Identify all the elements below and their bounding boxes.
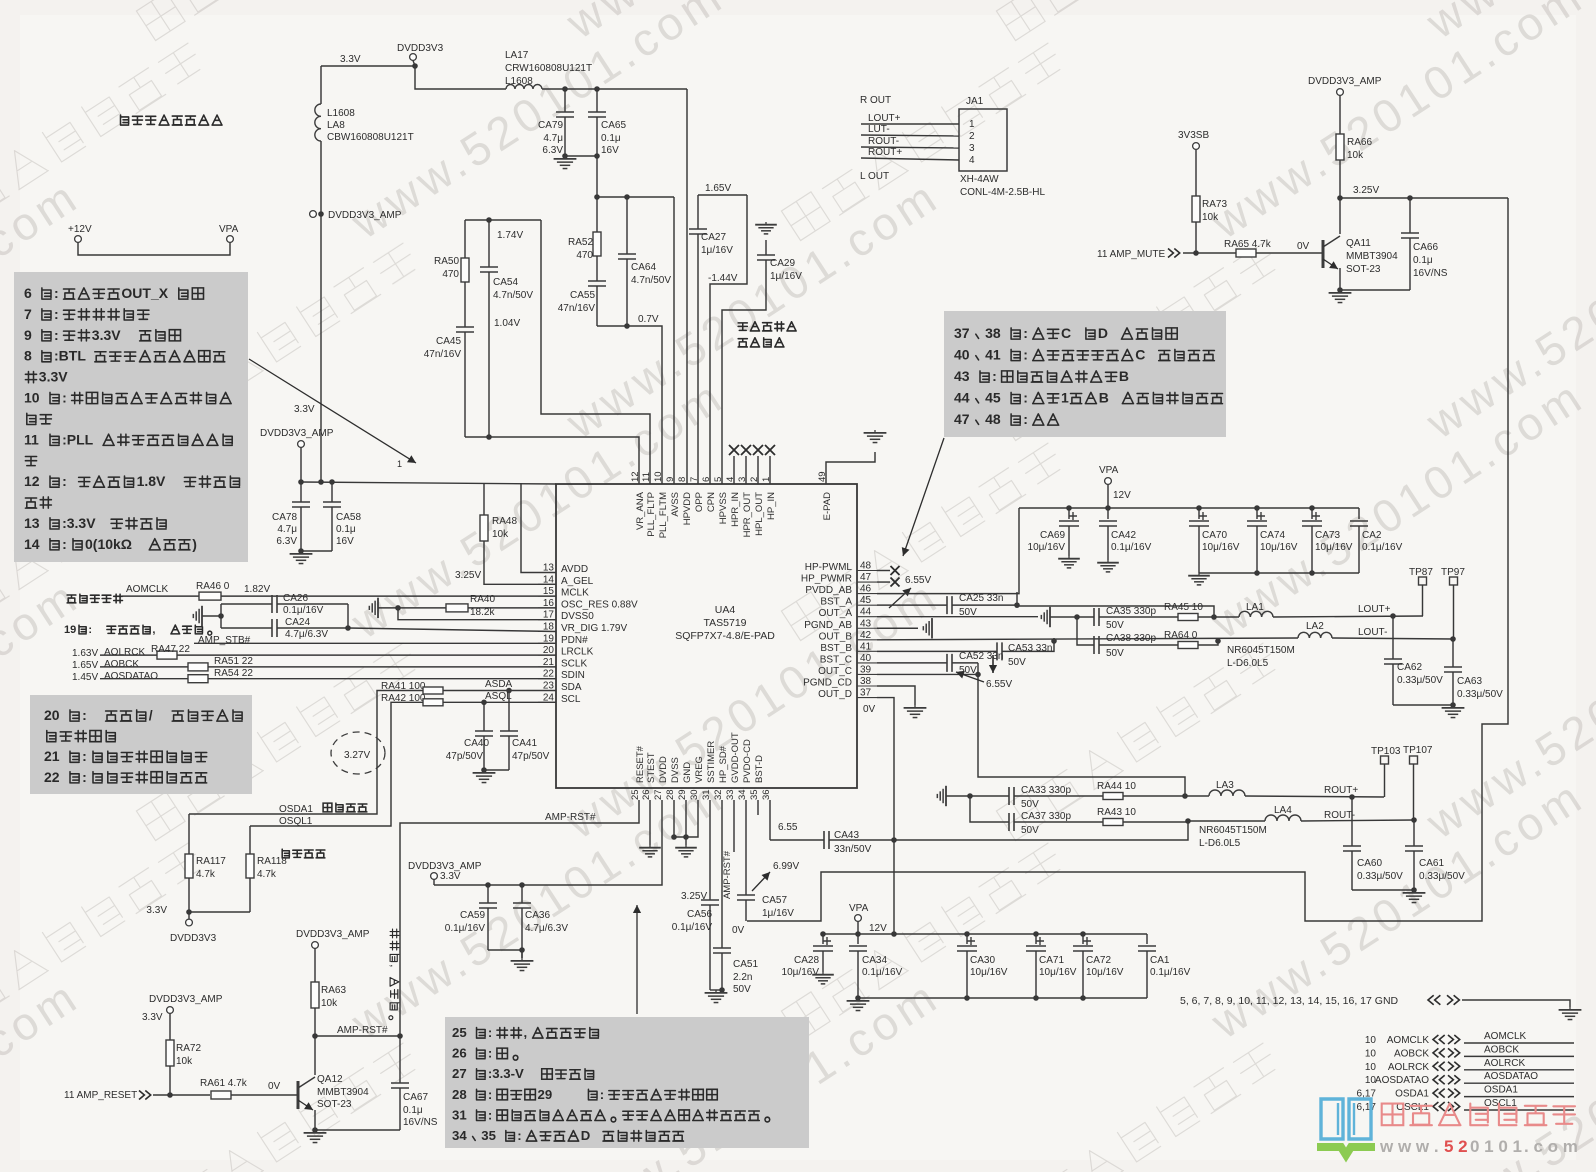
capacitor CA26 <box>221 603 272 605</box>
svg-text:CA43: CA43 <box>834 830 859 841</box>
wire VPA bottom rail <box>857 922 859 935</box>
svg-text:50V: 50V <box>733 984 751 995</box>
node DVDD3V3_AMP mid-left <box>320 141 322 482</box>
svg-text:DVDD: DVDD <box>658 756 669 783</box>
svg-text::: : <box>992 368 997 384</box>
svg-text:1: 1 <box>761 477 772 482</box>
op-amp U4 TAS5719 IC body <box>556 484 857 788</box>
svg-text:10k: 10k <box>1347 150 1364 161</box>
svg-text:19: 19 <box>64 624 76 636</box>
svg-text:48: 48 <box>985 411 1001 427</box>
svg-text:DVDD3V3_AMP: DVDD3V3_AMP <box>149 994 223 1005</box>
ground under CA63 <box>1452 705 1454 708</box>
svg-text:B: B <box>1099 390 1109 406</box>
svg-text:CA74: CA74 <box>1260 530 1285 541</box>
wire CA59 CA36 bottoms ground <box>488 950 522 958</box>
svg-text:4: 4 <box>725 477 736 482</box>
label 主时钟信号 <box>67 595 76 603</box>
capacitor CA28 <box>822 934 824 944</box>
svg-text:3.25V: 3.25V <box>455 570 481 581</box>
ground under CA79 <box>564 156 566 159</box>
ground sideways snubber A <box>1049 607 1051 627</box>
svg-text:6.55V: 6.55V <box>986 679 1012 690</box>
svg-text:SCL: SCL <box>561 694 581 705</box>
node 3.25V QA11 <box>1337 195 1343 201</box>
wire pin13 from rail <box>521 483 556 573</box>
svg-text:0.1μ/16V: 0.1μ/16V <box>1362 542 1403 553</box>
svg-text:14: 14 <box>24 536 40 552</box>
svg-text::BTL: :BTL <box>54 348 86 364</box>
svg-text:DVDD3V3: DVDD3V3 <box>170 933 217 944</box>
capacitor CA72 <box>1082 934 1084 944</box>
capacitor CA30 <box>966 934 968 944</box>
svg-text:LOUT-: LOUT- <box>1358 627 1387 638</box>
node 3.27V dashed ellipse <box>331 732 385 774</box>
svg-text:CA40: CA40 <box>464 738 489 749</box>
wire LA17 to pin8 drop <box>542 88 687 90</box>
capacitor CA2 <box>1358 508 1360 519</box>
svg-text:RA54 22: RA54 22 <box>214 668 253 679</box>
resistor RA48 to pin14 <box>483 483 485 516</box>
wire pin39 OUT_C <box>877 673 978 675</box>
svg-text:LOUT+: LOUT+ <box>868 113 901 124</box>
svg-text:LA17: LA17 <box>505 50 529 61</box>
wire pin38 PGND_CD to ground <box>877 686 915 705</box>
svg-text:AOMCLK: AOMCLK <box>126 584 169 595</box>
svg-text:21: 21 <box>44 748 60 764</box>
svg-text:34: 34 <box>737 789 748 800</box>
svg-text:0.1μ: 0.1μ <box>601 133 621 144</box>
resistor RA63 <box>314 949 316 984</box>
capacitor CA36 <box>521 885 523 903</box>
wire 3.25V rail right <box>1340 197 1508 199</box>
svg-text:NR6045T150M: NR6045T150M <box>1199 825 1267 836</box>
svg-text:1μ/16V: 1μ/16V <box>762 908 794 919</box>
svg-text:47p/50V: 47p/50V <box>512 751 550 762</box>
svg-text:OUT_C: OUT_C <box>818 666 852 677</box>
svg-text:BST_C: BST_C <box>820 654 852 665</box>
wire pin31 SSTIMER to CA56 <box>709 800 711 900</box>
wire pin8 HPVDD drop <box>686 89 688 484</box>
svg-text:CA27: CA27 <box>701 232 726 243</box>
svg-text:37: 37 <box>954 325 970 341</box>
capacitor CA56 <box>701 900 719 905</box>
svg-text:XH-4AW: XH-4AW <box>960 174 999 185</box>
svg-text:7: 7 <box>689 477 700 482</box>
wire pins 28 29 ground <box>674 800 686 837</box>
svg-text::: : <box>54 306 59 322</box>
svg-text:VPA: VPA <box>849 903 869 914</box>
capacitor CA33 330p <box>970 795 1009 797</box>
svg-text:10μ/16V: 10μ/16V <box>1202 542 1240 553</box>
ground under QA12 <box>314 1130 316 1133</box>
svg-text:CA60: CA60 <box>1357 858 1382 869</box>
svg-text:0V: 0V <box>863 704 876 715</box>
svg-text:44: 44 <box>954 390 970 406</box>
wire 3.3V rail top <box>321 65 415 67</box>
wire pin44 OUT_A <box>877 616 1038 618</box>
svg-text:10k: 10k <box>492 529 509 540</box>
svg-text:RA46 0: RA46 0 <box>196 581 230 592</box>
svg-text:AMP-RST#: AMP-RST# <box>722 850 733 899</box>
resistor RA73 <box>1195 150 1197 198</box>
wire CA55 CA64 bottom to pin10 <box>597 326 662 484</box>
svg-text:0.7V: 0.7V <box>638 314 659 325</box>
svg-text:47n/16V: 47n/16V <box>424 349 462 360</box>
svg-text:AOLRCK: AOLRCK <box>1484 1058 1525 1069</box>
svg-text:RA51 22: RA51 22 <box>214 656 253 667</box>
svg-text:11 AMP_MUTE: 11 AMP_MUTE <box>1097 249 1165 260</box>
svg-text:16V: 16V <box>336 536 354 547</box>
svg-text::: : <box>82 748 87 764</box>
svg-text:DVDD3V3_AMP: DVDD3V3_AMP <box>1308 76 1382 87</box>
svg-text:ASQL: ASQL <box>485 691 512 702</box>
wire pin45 BST_A with CA25 <box>877 604 947 606</box>
svg-text:CA1: CA1 <box>1150 955 1170 966</box>
svg-text:1.8V: 1.8V <box>137 473 166 489</box>
wire pin36 BST-D down to CA43 <box>769 800 771 840</box>
svg-text:0 1 0 1: 0 1 0 1 <box>1470 1137 1522 1156</box>
svg-text:AOMCLK: AOMCLK <box>1387 1035 1430 1046</box>
svg-text:26: 26 <box>641 789 652 800</box>
svg-text:8: 8 <box>677 477 688 482</box>
wire LOUT+ to test point <box>1273 616 1423 617</box>
svg-text:50V: 50V <box>1106 620 1124 631</box>
svg-text:CA72: CA72 <box>1086 955 1111 966</box>
arrow from box1 to IC <box>249 359 416 463</box>
capacitor CA25 33n <box>947 596 952 614</box>
svg-text:VR_ANA: VR_ANA <box>635 491 646 530</box>
svg-text:3.3V: 3.3V <box>92 327 121 343</box>
svg-text:CA25 33n: CA25 33n <box>959 593 1003 604</box>
svg-text:29: 29 <box>538 1087 553 1102</box>
svg-text:OSC_RES 0.88V: OSC_RES 0.88V <box>561 599 638 610</box>
svg-text:0.1μ/16V: 0.1μ/16V <box>862 967 903 978</box>
svg-text:0.1μ: 0.1μ <box>403 1105 423 1116</box>
svg-text:34: 34 <box>452 1128 467 1143</box>
svg-text:35: 35 <box>749 789 760 800</box>
small down arrow 6.55V <box>992 655 994 673</box>
arrow 6.99V <box>752 872 770 891</box>
svg-text:44: 44 <box>860 607 872 618</box>
svg-text:OUT_D: OUT_D <box>818 689 852 700</box>
capacitor CA64 <box>626 197 628 254</box>
wire pin32 HP_SD# to CA51 <box>721 800 723 948</box>
svg-text:DVDD3V3: DVDD3V3 <box>397 43 444 54</box>
svg-text:3.3V: 3.3V <box>146 905 167 916</box>
svg-text:TAS5719: TAS5719 <box>704 617 747 629</box>
resistor RA47 <box>157 651 177 659</box>
ground under CA78 <box>300 551 302 554</box>
svg-text:4.7n/50V: 4.7n/50V <box>493 290 533 301</box>
svg-text:10μ/16V: 10μ/16V <box>1039 967 1077 978</box>
svg-text:0.33μ/50V: 0.33μ/50V <box>1357 871 1403 882</box>
svg-text:CPN: CPN <box>706 492 717 512</box>
svg-text:16V/NS: 16V/NS <box>403 1117 438 1128</box>
svg-text:0.1μ/16V: 0.1μ/16V <box>1111 542 1152 553</box>
svg-text:D: D <box>581 1128 591 1143</box>
svg-text:RA44 10: RA44 10 <box>1097 781 1136 792</box>
svg-text::: : <box>517 1128 521 1143</box>
svg-text::: : <box>488 1087 492 1102</box>
svg-text:36: 36 <box>761 789 772 800</box>
wire pin33 GVDD-OUT stub <box>733 800 735 852</box>
arrow from box4 to IC bottom <box>636 905 638 1014</box>
svg-text:L1608: L1608 <box>327 108 355 119</box>
svg-text:CA70: CA70 <box>1202 530 1227 541</box>
svg-text:9: 9 <box>24 327 32 343</box>
svg-text:4.7k: 4.7k <box>257 869 277 880</box>
svg-text:4.7μ/6.3V: 4.7μ/6.3V <box>525 923 568 934</box>
wire OUT_C drop to ROUT filter <box>978 663 1185 796</box>
svg-text:16V: 16V <box>601 145 619 156</box>
svg-text:10: 10 <box>1365 1048 1377 1059</box>
svg-text:RA45 10: RA45 10 <box>1164 602 1203 613</box>
svg-text:AOSDATAO: AOSDATAO <box>1484 1071 1538 1082</box>
svg-text:L-D6.0L5: L-D6.0L5 <box>1199 838 1241 849</box>
svg-text:3.3V: 3.3V <box>142 1012 163 1023</box>
capacitor CA62 <box>1392 616 1394 659</box>
capacitor CA53 33n <box>997 642 1002 660</box>
capacitor CA1 <box>1146 934 1148 944</box>
svg-text:HPVDD: HPVDD <box>682 492 693 525</box>
svg-text:8: 8 <box>24 348 32 364</box>
svg-text:,: , <box>524 1025 528 1040</box>
svg-text::3.3-V: :3.3-V <box>488 1066 524 1081</box>
svg-text:3.3V: 3.3V <box>39 369 68 385</box>
svg-text:CA63: CA63 <box>1457 676 1482 687</box>
svg-text:RA40: RA40 <box>470 594 495 605</box>
wire pin25 RESET# to AMP-RST# net <box>400 800 639 1036</box>
svg-text:-1.44V: -1.44V <box>708 273 738 284</box>
svg-text:1: 1 <box>1061 390 1069 406</box>
svg-text:LOUT+: LOUT+ <box>1358 604 1391 615</box>
svg-text::: : <box>1023 347 1028 363</box>
svg-text:38: 38 <box>985 325 1001 341</box>
wire QA12 emitter to CA67 bottom <box>315 1129 400 1131</box>
wire QA11 emitter to CA66 bottom <box>1340 289 1410 291</box>
capacitor CA54 <box>488 220 490 267</box>
svg-text:29: 29 <box>677 789 688 800</box>
svg-text:SOT-23: SOT-23 <box>1346 264 1381 275</box>
svg-text:AVSS: AVSS <box>670 492 681 517</box>
wire pin37 OUT_D down <box>877 698 894 934</box>
capacitor CA52 33n <box>947 654 952 672</box>
svg-text:3: 3 <box>969 143 975 154</box>
wire pin41 BST_B with CA53 <box>877 650 997 652</box>
wire CA40 CA41 bottoms to ground <box>484 769 509 771</box>
svg-text:16V/NS: 16V/NS <box>1413 268 1448 279</box>
wire pin43 PGND_AB to side ground <box>877 627 918 629</box>
capacitor CA65 <box>596 89 598 112</box>
svg-text:1: 1 <box>969 119 975 130</box>
svg-text:0.1μ/16V: 0.1μ/16V <box>445 923 486 934</box>
capacitor CA35 330p <box>1094 608 1099 626</box>
wire +12V to VPA <box>78 243 230 256</box>
svg-text:0.1μ/16V: 0.1μ/16V <box>672 922 713 933</box>
svg-text:HPR_OUT: HPR_OUT <box>742 492 753 538</box>
svg-text:RA66: RA66 <box>1347 137 1372 148</box>
svg-text:AOLRCK: AOLRCK <box>1388 1062 1429 1073</box>
wire bottom cap rail ground <box>858 997 1147 999</box>
svg-text:41: 41 <box>985 347 1001 363</box>
svg-text::: : <box>62 473 67 489</box>
wire OUT net to snubber <box>1016 592 1018 605</box>
svg-text:2.2n: 2.2n <box>733 972 752 983</box>
svg-text:1.65V: 1.65V <box>72 660 98 671</box>
wire CA78 CA58 bottoms <box>301 550 332 552</box>
svg-text:CA52 33n: CA52 33n <box>959 651 1003 662</box>
wire CA45 CA54 bottom to pin12 <box>465 437 639 484</box>
capacitor CA24 <box>221 627 272 629</box>
svg-text:CRW160808U121T: CRW160808U121T <box>505 63 592 74</box>
svg-text:2: 2 <box>969 131 975 142</box>
annotation box pins 25-35 <box>445 1017 809 1148</box>
svg-text:BST-D: BST-D <box>754 755 765 783</box>
wire pin26 STEST ground <box>649 800 651 845</box>
capacitor CA29 to pin5 <box>765 240 767 255</box>
svg-text:AOLRCK: AOLRCK <box>104 647 145 658</box>
capacitor CA67 <box>399 1036 401 1083</box>
svg-text:NR6045T150M: NR6045T150M <box>1227 645 1295 656</box>
svg-text:27: 27 <box>452 1066 467 1081</box>
svg-text:HP_SD#: HP_SD# <box>718 745 729 783</box>
svg-text:OSDA1: OSDA1 <box>279 804 313 815</box>
svg-text:CA2: CA2 <box>1362 530 1382 541</box>
wire to pin9 <box>673 197 675 484</box>
wire CA26 CA24 right rail to pin18 <box>347 604 349 628</box>
wire ground to CA26 CA24 rail <box>202 615 221 617</box>
wire pin35 BST-D stub <box>757 800 759 815</box>
resistor RA46 <box>199 592 221 600</box>
svg-text:5: 5 <box>713 477 724 482</box>
arrow to 6.55V <box>889 588 911 608</box>
svg-text:E-PAD: E-PAD <box>822 492 833 520</box>
svg-text:0V: 0V <box>732 925 745 936</box>
svg-text:12: 12 <box>24 473 40 489</box>
svg-text:MMBT3904: MMBT3904 <box>1346 251 1398 262</box>
svg-text:CA36: CA36 <box>525 910 550 921</box>
svg-text:5, 6, 7, 8, 9, 10, 11, 12, 13,: 5, 6, 7, 8, 9, 10, 11, 12, 13, 14, 15, 1… <box>1180 995 1399 1007</box>
wire RA42 left to OSCL1 bus <box>250 702 423 826</box>
resistor RA40 row pin16 <box>377 598 379 618</box>
wire pin30 VREG <box>686 800 698 837</box>
wire LOUT- to CA63 <box>1332 638 1453 639</box>
svg-text:43: 43 <box>954 368 970 384</box>
svg-text:OSQL1: OSQL1 <box>279 816 313 827</box>
svg-text:CA59: CA59 <box>460 910 485 921</box>
svg-text:40: 40 <box>954 347 970 363</box>
svg-text:RESET#: RESET# <box>635 745 646 783</box>
svg-text:6.55: 6.55 <box>778 822 798 833</box>
svg-text:PLL_FLTM: PLL_FLTM <box>658 492 669 538</box>
svg-text:BST_A: BST_A <box>820 597 852 608</box>
capacitor CA37 330p <box>970 796 1009 822</box>
svg-text:31: 31 <box>701 789 712 800</box>
logo text 家电维修资料网 red <box>1382 1104 1404 1126</box>
capacitor CA38 330p <box>1077 617 1094 645</box>
svg-text:CA61: CA61 <box>1419 858 1444 869</box>
svg-text:CA42: CA42 <box>1111 530 1136 541</box>
svg-text:. c o m: . c o m <box>1524 1137 1578 1156</box>
svg-text:RA117: RA117 <box>196 856 226 867</box>
svg-text:38: 38 <box>860 676 872 687</box>
arrow 6.55V to CA52 <box>956 672 984 682</box>
svg-text:28: 28 <box>452 1087 467 1102</box>
svg-text:47: 47 <box>860 572 872 583</box>
svg-text:UA4: UA4 <box>715 604 736 616</box>
capacitor CA27 column to pin7 <box>697 195 699 229</box>
svg-text:CA73: CA73 <box>1315 530 1340 541</box>
svg-text:4: 4 <box>969 155 975 166</box>
svg-text:C: C <box>1135 347 1145 363</box>
svg-text::: : <box>600 1087 604 1102</box>
svg-text:SSTIMER: SSTIMER <box>706 741 717 783</box>
svg-text:LA8: LA8 <box>327 120 345 131</box>
svg-text:PDN#: PDN# <box>561 635 588 646</box>
svg-text:3.3V: 3.3V <box>294 404 315 415</box>
svg-text:MCLK: MCLK <box>561 588 589 599</box>
svg-text:SQFP7X7-4.8/E-PAD: SQFP7X7-4.8/E-PAD <box>675 630 775 642</box>
svg-text:20: 20 <box>44 707 60 723</box>
svg-text:CA24: CA24 <box>285 617 310 628</box>
svg-text:11: 11 <box>24 431 39 447</box>
svg-text:CA29: CA29 <box>770 258 795 269</box>
svg-text:25: 25 <box>452 1025 467 1040</box>
resistor RA51 <box>188 663 208 671</box>
svg-text:TP107: TP107 <box>1403 745 1433 756</box>
svg-text::: : <box>62 390 67 406</box>
svg-text:RA48: RA48 <box>492 516 517 527</box>
ground above E-PAD <box>874 430 876 433</box>
svg-text::: : <box>54 327 59 343</box>
svg-text:10: 10 <box>1365 1062 1377 1073</box>
svg-text:31: 31 <box>452 1107 467 1122</box>
wire RA41 left to OSDA1 bus <box>189 691 423 815</box>
svg-text:4.7μ/6.3V: 4.7μ/6.3V <box>285 629 328 640</box>
wire pin40 BST_C with CA52 <box>877 662 947 664</box>
capacitor CA34 <box>857 934 859 944</box>
svg-text:CA38 330p: CA38 330p <box>1106 633 1156 644</box>
svg-text:CA35 330p: CA35 330p <box>1106 606 1156 617</box>
svg-text:2: 2 <box>749 477 760 482</box>
svg-text:6.99V: 6.99V <box>773 861 799 872</box>
svg-text:10k: 10k <box>321 998 338 1009</box>
svg-text:50V: 50V <box>1021 799 1039 810</box>
svg-text:PVDD_AB: PVDD_AB <box>805 585 852 596</box>
svg-text:CBW160808U121T: CBW160808U121T <box>327 132 414 143</box>
wire CA79 CA65 bottoms join <box>565 155 597 157</box>
svg-text:45: 45 <box>860 595 872 606</box>
svg-text:4.7k: 4.7k <box>196 869 216 880</box>
svg-text:ROUT+: ROUT+ <box>868 147 902 158</box>
svg-text:43: 43 <box>860 618 872 629</box>
wire pin42 OUT_B to LA2 <box>877 638 1298 640</box>
svg-text:1: 1 <box>397 459 402 469</box>
svg-text:CA34: CA34 <box>862 955 887 966</box>
arrow from box2 to pins 47 48 <box>903 438 944 556</box>
svg-text:6,17: 6,17 <box>1357 1102 1377 1113</box>
capacitor CA41 <box>508 691 510 732</box>
svg-text:41: 41 <box>860 641 872 652</box>
svg-text:470: 470 <box>442 269 459 280</box>
svg-text:0.1μ/16V: 0.1μ/16V <box>283 605 324 616</box>
svg-text:10k: 10k <box>1202 212 1219 223</box>
svg-text:CA26: CA26 <box>283 593 308 604</box>
svg-text:0.1μ: 0.1μ <box>1413 255 1433 266</box>
svg-text:1.45V: 1.45V <box>72 672 98 683</box>
ground at GND line end <box>1569 1007 1571 1010</box>
